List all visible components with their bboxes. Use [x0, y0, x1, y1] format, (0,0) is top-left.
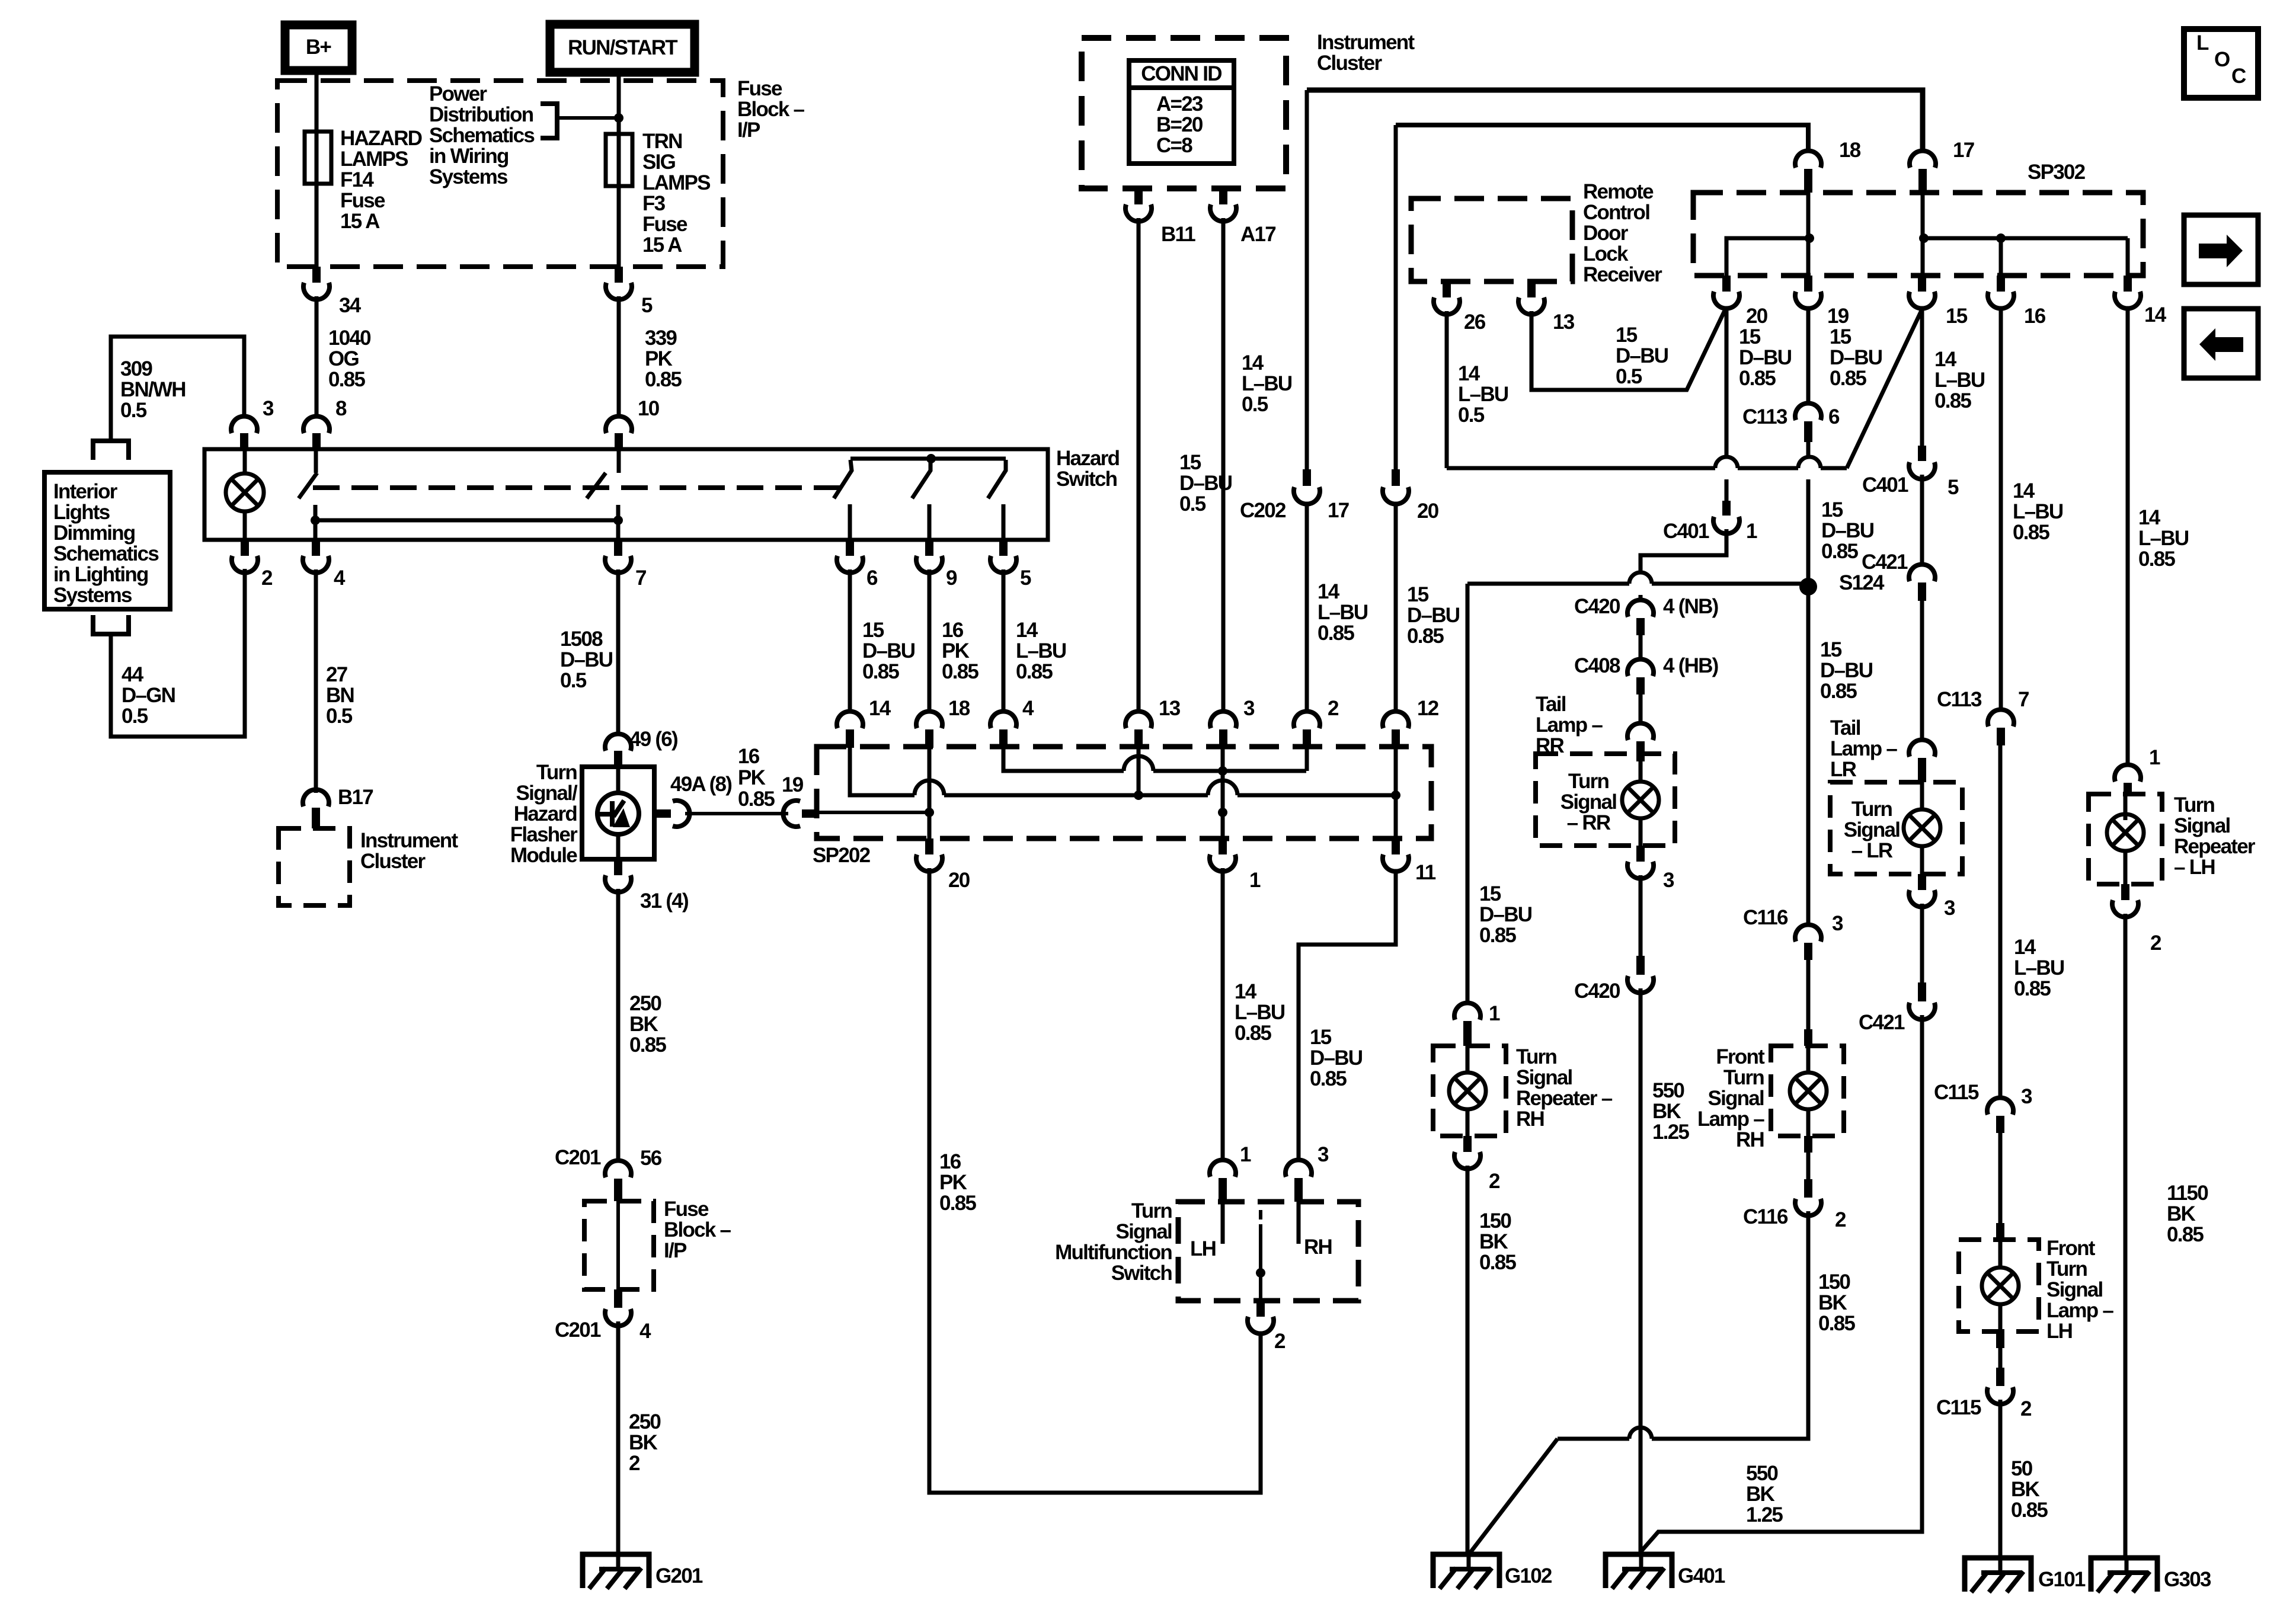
- connector pin 1 SP202 bottom: [1219, 838, 1227, 854]
- svg-text:Front: Front: [2046, 1237, 2096, 1260]
- connector pin 13 receiver: [1527, 281, 1536, 297]
- svg-text:– LH: – LH: [2174, 856, 2215, 879]
- front turn signal lamp RH dashed box: [1771, 1046, 1844, 1136]
- svg-text:0.85: 0.85: [328, 368, 365, 391]
- reference bracket power distribution: [541, 104, 557, 138]
- svg-text:19: 19: [1827, 305, 1849, 328]
- SP202 line A wire: [1003, 748, 1124, 771]
- svg-text:Fuse: Fuse: [737, 77, 782, 100]
- connector pin 4 SP202 top: [990, 711, 1016, 728]
- wire 550 BK 1.25 to G401 diagonal: [1641, 1015, 1922, 1551]
- wire 27 BN 0.5: [314, 569, 318, 793]
- svg-text:Signal: Signal: [2046, 1278, 2103, 1301]
- svg-text:4: 4: [639, 1320, 651, 1343]
- svg-text:SIG: SIG: [642, 151, 676, 174]
- svg-text:Flasher: Flasher: [510, 823, 578, 846]
- svg-text:L: L: [2196, 31, 2209, 55]
- connector B17 instrument cluster: [303, 789, 329, 806]
- wire lamp RH to C116 2: [1804, 1136, 1812, 1153]
- wire 14 L-BU 0.5 A17: [1221, 218, 1226, 710]
- svg-text:12: 12: [1417, 697, 1439, 720]
- junction dot line C wire 18: [925, 808, 934, 817]
- svg-text:4: 4: [1022, 697, 1034, 720]
- connector pin 10 hazard switch: [615, 433, 623, 449]
- svg-text:Turn: Turn: [1516, 1045, 1557, 1068]
- svg-text:0.85: 0.85: [1820, 680, 1857, 703]
- wire 18 inside SP302: [1806, 193, 1811, 276]
- svg-text:2: 2: [2020, 1397, 2032, 1420]
- svg-text:L–BU: L–BU: [1242, 372, 1292, 395]
- off-page bracket bottom interior lights: [93, 615, 129, 634]
- ground G303: [2091, 1558, 2157, 1592]
- multifunction switch blade: [1259, 1210, 1262, 1219]
- svg-text:339: 339: [645, 327, 677, 350]
- svg-text:L–BU: L–BU: [1016, 639, 1066, 662]
- svg-text:0.85: 0.85: [2138, 548, 2175, 571]
- svg-text:15: 15: [1479, 882, 1501, 905]
- svg-text:0.85: 0.85: [738, 788, 775, 811]
- svg-text:RH: RH: [1304, 1235, 1332, 1259]
- svg-text:BK: BK: [2167, 1202, 2196, 1225]
- splice S124: [1799, 578, 1817, 596]
- svg-text:0.85: 0.85: [1407, 625, 1444, 648]
- connector C420 pin 3: [1636, 956, 1645, 975]
- svg-text:L–BU: L–BU: [2014, 956, 2064, 980]
- junction dot line B wire 12: [1391, 790, 1400, 800]
- svg-text:5: 5: [1020, 566, 1031, 590]
- svg-text:1: 1: [1489, 1002, 1500, 1025]
- connector pin 6 hazard switch bottom: [846, 540, 854, 556]
- connector C202 pin 17: [1303, 469, 1311, 486]
- svg-text:15 A: 15 A: [340, 210, 380, 233]
- svg-text:L–BU: L–BU: [1235, 1001, 1285, 1024]
- svg-text:G401: G401: [1678, 1564, 1725, 1587]
- turn signal repeater RH dashed box: [1433, 1046, 1506, 1136]
- svg-text:LH: LH: [1190, 1237, 1216, 1260]
- wire C401 to C420 RR chain: [1641, 529, 1726, 572]
- svg-text:15: 15: [1616, 324, 1638, 347]
- svg-text:RUN/START: RUN/START: [568, 36, 677, 59]
- svg-text:4 (HB): 4 (HB): [1663, 654, 1718, 677]
- svg-text:3: 3: [1944, 897, 1955, 920]
- hazard blade 3: [834, 460, 852, 498]
- connector C116 pin 2: [1804, 1179, 1812, 1198]
- svg-text:9: 9: [946, 566, 957, 590]
- connector C115 pin 3: [1987, 1097, 2013, 1115]
- svg-text:2: 2: [1274, 1330, 1285, 1353]
- connector C113 pin 6: [1795, 403, 1821, 420]
- svg-text:0.85: 0.85: [2011, 1499, 2048, 1522]
- wire 150 BK 0.85 RH lamp ground: [1652, 1211, 1808, 1439]
- connector pin 34 fuse block: [312, 267, 321, 283]
- svg-text:15: 15: [1821, 498, 1843, 521]
- svg-text:0.85: 0.85: [645, 368, 682, 391]
- hazard switch blade 1: [299, 473, 317, 498]
- svg-text:15: 15: [1179, 451, 1201, 474]
- svg-text:0.5: 0.5: [120, 399, 147, 422]
- wire C116 to front lamp RH: [1806, 960, 1811, 1029]
- svg-text:Repeater: Repeater: [2174, 835, 2256, 858]
- connector pin 1 multifunction switch: [1210, 1160, 1236, 1177]
- svg-text:Signal/: Signal/: [516, 782, 578, 805]
- connector pin 2 multifunction switch: [1256, 1301, 1265, 1317]
- svg-text:Hazard: Hazard: [514, 802, 577, 825]
- svg-text:5: 5: [641, 294, 653, 317]
- wire 1150 BK 0.85: [2124, 914, 2128, 1558]
- svg-text:56: 56: [640, 1147, 662, 1170]
- connector pin 18 SP302: [1795, 151, 1821, 168]
- svg-text:Module: Module: [510, 844, 577, 867]
- svg-text:G303: G303: [2164, 1568, 2211, 1591]
- connector pin 1 repeater RH: [1454, 1003, 1480, 1020]
- wire 14 L-BU 0.5 receiver 26 to SP302 15: [1445, 311, 1449, 468]
- svg-text:LAMPS: LAMPS: [642, 171, 710, 194]
- hazard switch mechanical dashed link: [313, 485, 841, 490]
- svg-text:D–BU: D–BU: [1616, 344, 1668, 367]
- svg-text:Schematics: Schematics: [429, 124, 535, 147]
- svg-text:Repeater –: Repeater –: [1516, 1087, 1613, 1110]
- connector pin 3 multifunction switch: [1285, 1160, 1312, 1177]
- wire tail LR to C421 lower: [1920, 904, 1924, 982]
- svg-text:Turn: Turn: [2174, 793, 2215, 817]
- svg-text:0.5: 0.5: [1616, 365, 1642, 388]
- wire 150 BK 0.85 repeater RH: [1466, 1166, 1470, 1554]
- connector A17 instrument cluster: [1219, 188, 1227, 204]
- connector C116 pin 3: [1795, 924, 1821, 942]
- svg-text:BK: BK: [1746, 1483, 1775, 1506]
- ground G101: [1965, 1558, 2031, 1592]
- svg-text:G101: G101: [2038, 1568, 2086, 1591]
- wire 3 through SP202: [1221, 748, 1225, 838]
- wire SP302 20 to C401 1: [1725, 310, 1729, 457]
- svg-text:49 (6): 49 (6): [629, 728, 677, 751]
- svg-text:150: 150: [1479, 1209, 1511, 1233]
- hazard contact bar: [850, 457, 1006, 461]
- wire C408 to tail lamp RR: [1639, 694, 1643, 722]
- svg-text:C116: C116: [1743, 1205, 1788, 1228]
- svg-text:1: 1: [1746, 520, 1757, 543]
- connector pin 2 repeater RH: [1463, 1136, 1472, 1152]
- svg-text:Tail: Tail: [1536, 693, 1566, 716]
- svg-text:14: 14: [2138, 506, 2161, 529]
- svg-text:250: 250: [629, 992, 661, 1015]
- svg-text:0.5: 0.5: [1179, 492, 1206, 516]
- svg-text:Cluster: Cluster: [1317, 52, 1382, 75]
- bulb front turn signal LH: [1998, 1240, 2003, 1267]
- svg-text:0.85: 0.85: [1318, 622, 1354, 645]
- svg-text:D–GN: D–GN: [121, 684, 175, 707]
- connector C115 pin 2: [1996, 1368, 2004, 1386]
- wire C113 to S124: [1806, 442, 1811, 457]
- svg-text:Turn: Turn: [1568, 770, 1609, 793]
- svg-text:A=23: A=23: [1156, 92, 1203, 116]
- svg-text:150: 150: [1818, 1270, 1850, 1294]
- svg-text:44: 44: [121, 663, 144, 686]
- svg-text:Fuse: Fuse: [664, 1198, 709, 1221]
- svg-text:0.85: 0.85: [1739, 367, 1776, 390]
- svg-text:Systems: Systems: [429, 165, 508, 188]
- svg-text:LH: LH: [2046, 1320, 2072, 1343]
- svg-text:BK: BK: [2011, 1478, 2040, 1501]
- svg-text:Lamp –: Lamp –: [1830, 737, 1897, 760]
- connector pin 9 hazard switch bottom: [925, 540, 933, 556]
- svg-text:O: O: [2214, 48, 2230, 71]
- svg-text:S124: S124: [1839, 571, 1885, 594]
- connector pin 2 hazard switch below: [241, 540, 249, 556]
- hazard lower contact 5: [1002, 504, 1006, 540]
- wire B+ to fuse F14: [315, 71, 319, 132]
- connector pin 2 SP202 top: [1294, 711, 1320, 728]
- svg-text:I/P: I/P: [737, 119, 760, 142]
- wire 250 BK 2: [616, 1321, 621, 1570]
- svg-text:0.5: 0.5: [121, 705, 148, 728]
- svg-text:in Lighting: in Lighting: [53, 563, 148, 586]
- svg-text:3: 3: [263, 397, 274, 420]
- multifunction RH contact: [1297, 1202, 1301, 1244]
- svg-text:0.85: 0.85: [1016, 660, 1053, 683]
- LOC legend box: [2184, 29, 2258, 98]
- diagonal wire to G102: [1470, 1439, 1558, 1553]
- CONN ID table box: [1129, 60, 1234, 164]
- connector C421 pin 3: [1909, 564, 1935, 581]
- svg-text:PK: PK: [942, 639, 970, 662]
- svg-text:PK: PK: [939, 1171, 967, 1194]
- wire 12 through SP202: [1394, 748, 1398, 838]
- svg-text:Switch: Switch: [1111, 1262, 1172, 1285]
- wire 16 PK 0.85 to multifunction switch: [929, 868, 1261, 1493]
- ground G201: [583, 1554, 649, 1588]
- svg-text:C421: C421: [1862, 550, 1908, 574]
- svg-text:14: 14: [2144, 303, 2167, 327]
- svg-text:16: 16: [738, 745, 760, 768]
- svg-text:Cluster: Cluster: [360, 850, 426, 873]
- svg-text:26: 26: [1464, 311, 1486, 334]
- CONN ID header separator: [1129, 85, 1234, 90]
- svg-text:15: 15: [1830, 325, 1851, 348]
- svg-text:550: 550: [1746, 1462, 1778, 1485]
- connector C401 pin 5: [1918, 446, 1926, 461]
- wire bracket to RUN/START feed: [557, 116, 619, 120]
- instrument cluster lower dashed box: [279, 828, 350, 905]
- wire C401 to C421 3: [1920, 475, 1924, 563]
- svg-text:0.85: 0.85: [1479, 924, 1516, 947]
- svg-text:C202: C202: [1240, 499, 1286, 522]
- svg-text:Block –: Block –: [664, 1218, 731, 1241]
- hazard blade 4: [912, 460, 930, 498]
- svg-text:0.85: 0.85: [629, 1033, 666, 1057]
- connector pin 3 tail lamp RR: [1636, 846, 1645, 862]
- connector C401 pin 1: [1722, 501, 1731, 516]
- svg-text:Fuse: Fuse: [642, 213, 687, 236]
- svg-text:1040: 1040: [328, 327, 371, 350]
- svg-text:1: 1: [2149, 746, 2160, 769]
- wire C113 to C115 3: [1998, 745, 2003, 1096]
- svg-text:D–BU: D–BU: [1407, 604, 1460, 627]
- tail lamp LR dashed box: [1830, 782, 1962, 874]
- hazard switch box: [204, 449, 1048, 540]
- svg-text:Lamp –: Lamp –: [2046, 1299, 2113, 1322]
- flasher element symbol: [616, 767, 621, 794]
- svg-text:15: 15: [862, 619, 884, 642]
- wire fuse F14 to block edge: [315, 184, 319, 267]
- turn signal hazard flasher module box: [582, 767, 654, 859]
- wire instrument cluster to SP302 pin 17 trunk: [1307, 90, 1923, 149]
- connector pin 17 SP302: [1910, 151, 1936, 168]
- svg-text:20: 20: [948, 869, 970, 892]
- connector C201 pin 4: [614, 1289, 622, 1308]
- svg-text:4 (NB): 4 (NB): [1663, 595, 1718, 618]
- svg-text:0.5: 0.5: [1242, 393, 1268, 416]
- svg-text:Signal: Signal: [1707, 1087, 1764, 1110]
- wire C115 to front lamp LH: [1998, 1133, 2003, 1223]
- wire 14 L–BU 0.85: [1002, 569, 1006, 710]
- svg-text:L–BU: L–BU: [1934, 369, 1985, 392]
- wire receiver trunk to SP302 pin 18: [1396, 125, 1808, 149]
- junction dot line A wire 3: [1218, 766, 1227, 776]
- svg-text:Turn: Turn: [1131, 1199, 1172, 1222]
- wire 16 PK 0.85: [928, 569, 932, 710]
- wire 250 BK 0.85: [616, 889, 621, 1163]
- svg-text:BK: BK: [1818, 1291, 1847, 1314]
- junction dot SP302 17: [1919, 233, 1929, 243]
- svg-text:0.85: 0.85: [862, 660, 899, 683]
- svg-text:0.85: 0.85: [2013, 521, 2049, 544]
- wire SP302 branch 17 to 14: [1924, 236, 2128, 241]
- connector pin 3 SP202 top: [1210, 711, 1236, 728]
- svg-text:14: 14: [2013, 479, 2035, 502]
- turn signal repeater LH dashed box: [2089, 794, 2162, 884]
- svg-text:Schematics: Schematics: [53, 542, 159, 565]
- connector C408 pin 4HB: [1627, 659, 1654, 676]
- svg-text:14: 14: [1242, 351, 1264, 375]
- bulb front turn signal RH: [1806, 1046, 1811, 1073]
- connector tail lamp RR pigtail: [1627, 723, 1654, 740]
- svg-text:1.25: 1.25: [1652, 1121, 1689, 1144]
- svg-text:C401: C401: [1663, 520, 1709, 543]
- wire SP302 14 to repeater LH: [2126, 310, 2130, 763]
- svg-text:6: 6: [1828, 405, 1840, 428]
- wire 15 D-BU 0.5 receiver 13 to SP302 20: [1531, 308, 1726, 390]
- wire SP302 pin14 drop: [2126, 238, 2130, 276]
- svg-text:0.85: 0.85: [2014, 977, 2051, 1000]
- connector SP302 bottom pin x3051: [1804, 276, 1812, 292]
- svg-text:50: 50: [2011, 1457, 2033, 1480]
- svg-text:Front: Front: [1716, 1045, 1765, 1068]
- svg-text:3: 3: [1318, 1143, 1329, 1166]
- hazard lower contact 6: [848, 504, 852, 540]
- junction dot multifunction pole: [1256, 1268, 1265, 1278]
- svg-text:3: 3: [1832, 912, 1843, 935]
- svg-text:0.85: 0.85: [1821, 540, 1858, 563]
- ground G401: [1606, 1554, 1672, 1588]
- connector pin 14 SP202 top: [837, 711, 863, 728]
- svg-text:0.85: 0.85: [1818, 1312, 1855, 1335]
- svg-text:15: 15: [1820, 638, 1842, 661]
- svg-text:0.5: 0.5: [560, 669, 587, 692]
- connector C113 pin 7: [1988, 709, 2014, 726]
- svg-text:B+: B+: [306, 36, 332, 59]
- svg-text:15: 15: [1310, 1026, 1332, 1049]
- svg-text:L–BU: L–BU: [2013, 500, 2063, 523]
- svg-text:15 A: 15 A: [642, 233, 682, 257]
- junction dot SP302 18: [1805, 233, 1814, 243]
- svg-text:F14: F14: [340, 168, 374, 191]
- svg-text:C115: C115: [1936, 1396, 1981, 1419]
- svg-text:2: 2: [1328, 697, 1339, 720]
- wire C421 to tail lamp LR: [1920, 601, 1924, 738]
- svg-text:Systems: Systems: [53, 584, 132, 607]
- svg-text:0.85: 0.85: [1830, 367, 1866, 390]
- wire 14 L-BU 0.85 to multifunction LH: [1221, 868, 1225, 1158]
- svg-text:Remote: Remote: [1583, 180, 1654, 203]
- svg-text:0.5: 0.5: [326, 705, 353, 728]
- junction dot power distribution tap: [614, 113, 623, 123]
- connector C201 pin 56: [605, 1160, 631, 1177]
- svg-text:Lamp –: Lamp –: [1697, 1108, 1764, 1131]
- svg-text:15: 15: [1407, 583, 1429, 606]
- connector pin 7 hazard switch: [614, 540, 622, 556]
- svg-text:14: 14: [1458, 362, 1480, 385]
- svg-text:PK: PK: [645, 347, 673, 370]
- hazard switch pole 2 contact: [617, 449, 621, 473]
- svg-text:18: 18: [948, 697, 970, 720]
- connector SP302 bottom pin x2913: [1722, 276, 1731, 292]
- svg-text:0.85: 0.85: [939, 1192, 976, 1215]
- wire 1040 OG 0.85: [315, 296, 319, 415]
- svg-text:11: 11: [1415, 861, 1436, 884]
- svg-text:3: 3: [1663, 869, 1674, 892]
- svg-text:0.85: 0.85: [1310, 1067, 1347, 1090]
- wire S124 to C116 3: [1806, 587, 1811, 923]
- svg-text:Signal: Signal: [2174, 814, 2230, 837]
- wire inside fuse block: [616, 1201, 620, 1289]
- svg-text:3: 3: [1243, 697, 1255, 720]
- wire C420 to C408: [1639, 635, 1643, 658]
- bulb turn signal RR: [1639, 761, 1643, 782]
- svg-text:Instrument: Instrument: [1317, 31, 1415, 54]
- svg-text:D–BU: D–BU: [1820, 659, 1873, 682]
- connector SP302 bottom pin x3243: [1918, 276, 1926, 292]
- svg-text:1.25: 1.25: [1746, 1503, 1783, 1526]
- svg-text:OG: OG: [328, 347, 359, 370]
- svg-text:PK: PK: [738, 766, 766, 789]
- wire SP302 16 to C113 7: [1999, 310, 2003, 708]
- svg-text:L–BU: L–BU: [2138, 527, 2189, 550]
- bulb turn signal LR: [1920, 782, 1924, 809]
- wire tail RR to C420 3: [1639, 875, 1643, 975]
- svg-text:Control: Control: [1583, 201, 1649, 224]
- hazard switch blade 2: [587, 473, 606, 498]
- junction dot line B wire 13: [1134, 790, 1143, 800]
- svg-text:Multifunction: Multifunction: [1055, 1241, 1172, 1264]
- svg-text:3: 3: [2021, 1085, 2032, 1108]
- off-page bracket top interior lights: [93, 441, 129, 460]
- svg-text:Turn: Turn: [2046, 1257, 2087, 1281]
- svg-text:RH: RH: [1736, 1128, 1764, 1151]
- svg-text:in Wiring: in Wiring: [429, 145, 509, 168]
- connector tail lamp LR pigtail: [1909, 740, 1935, 757]
- svg-text:2: 2: [1489, 1170, 1500, 1193]
- junction dot bus right: [613, 516, 623, 525]
- svg-text:HAZARD: HAZARD: [340, 127, 422, 150]
- svg-text:16: 16: [939, 1150, 961, 1173]
- connector pin 3 hazard switch: [240, 433, 248, 449]
- connector B11 instrument cluster: [1134, 188, 1143, 204]
- connector pin 18 SP202 top: [916, 711, 942, 728]
- hazard blade 5: [988, 460, 1006, 498]
- remote control door lock receiver dashed box: [1411, 199, 1572, 281]
- svg-text:D–BU: D–BU: [560, 648, 613, 671]
